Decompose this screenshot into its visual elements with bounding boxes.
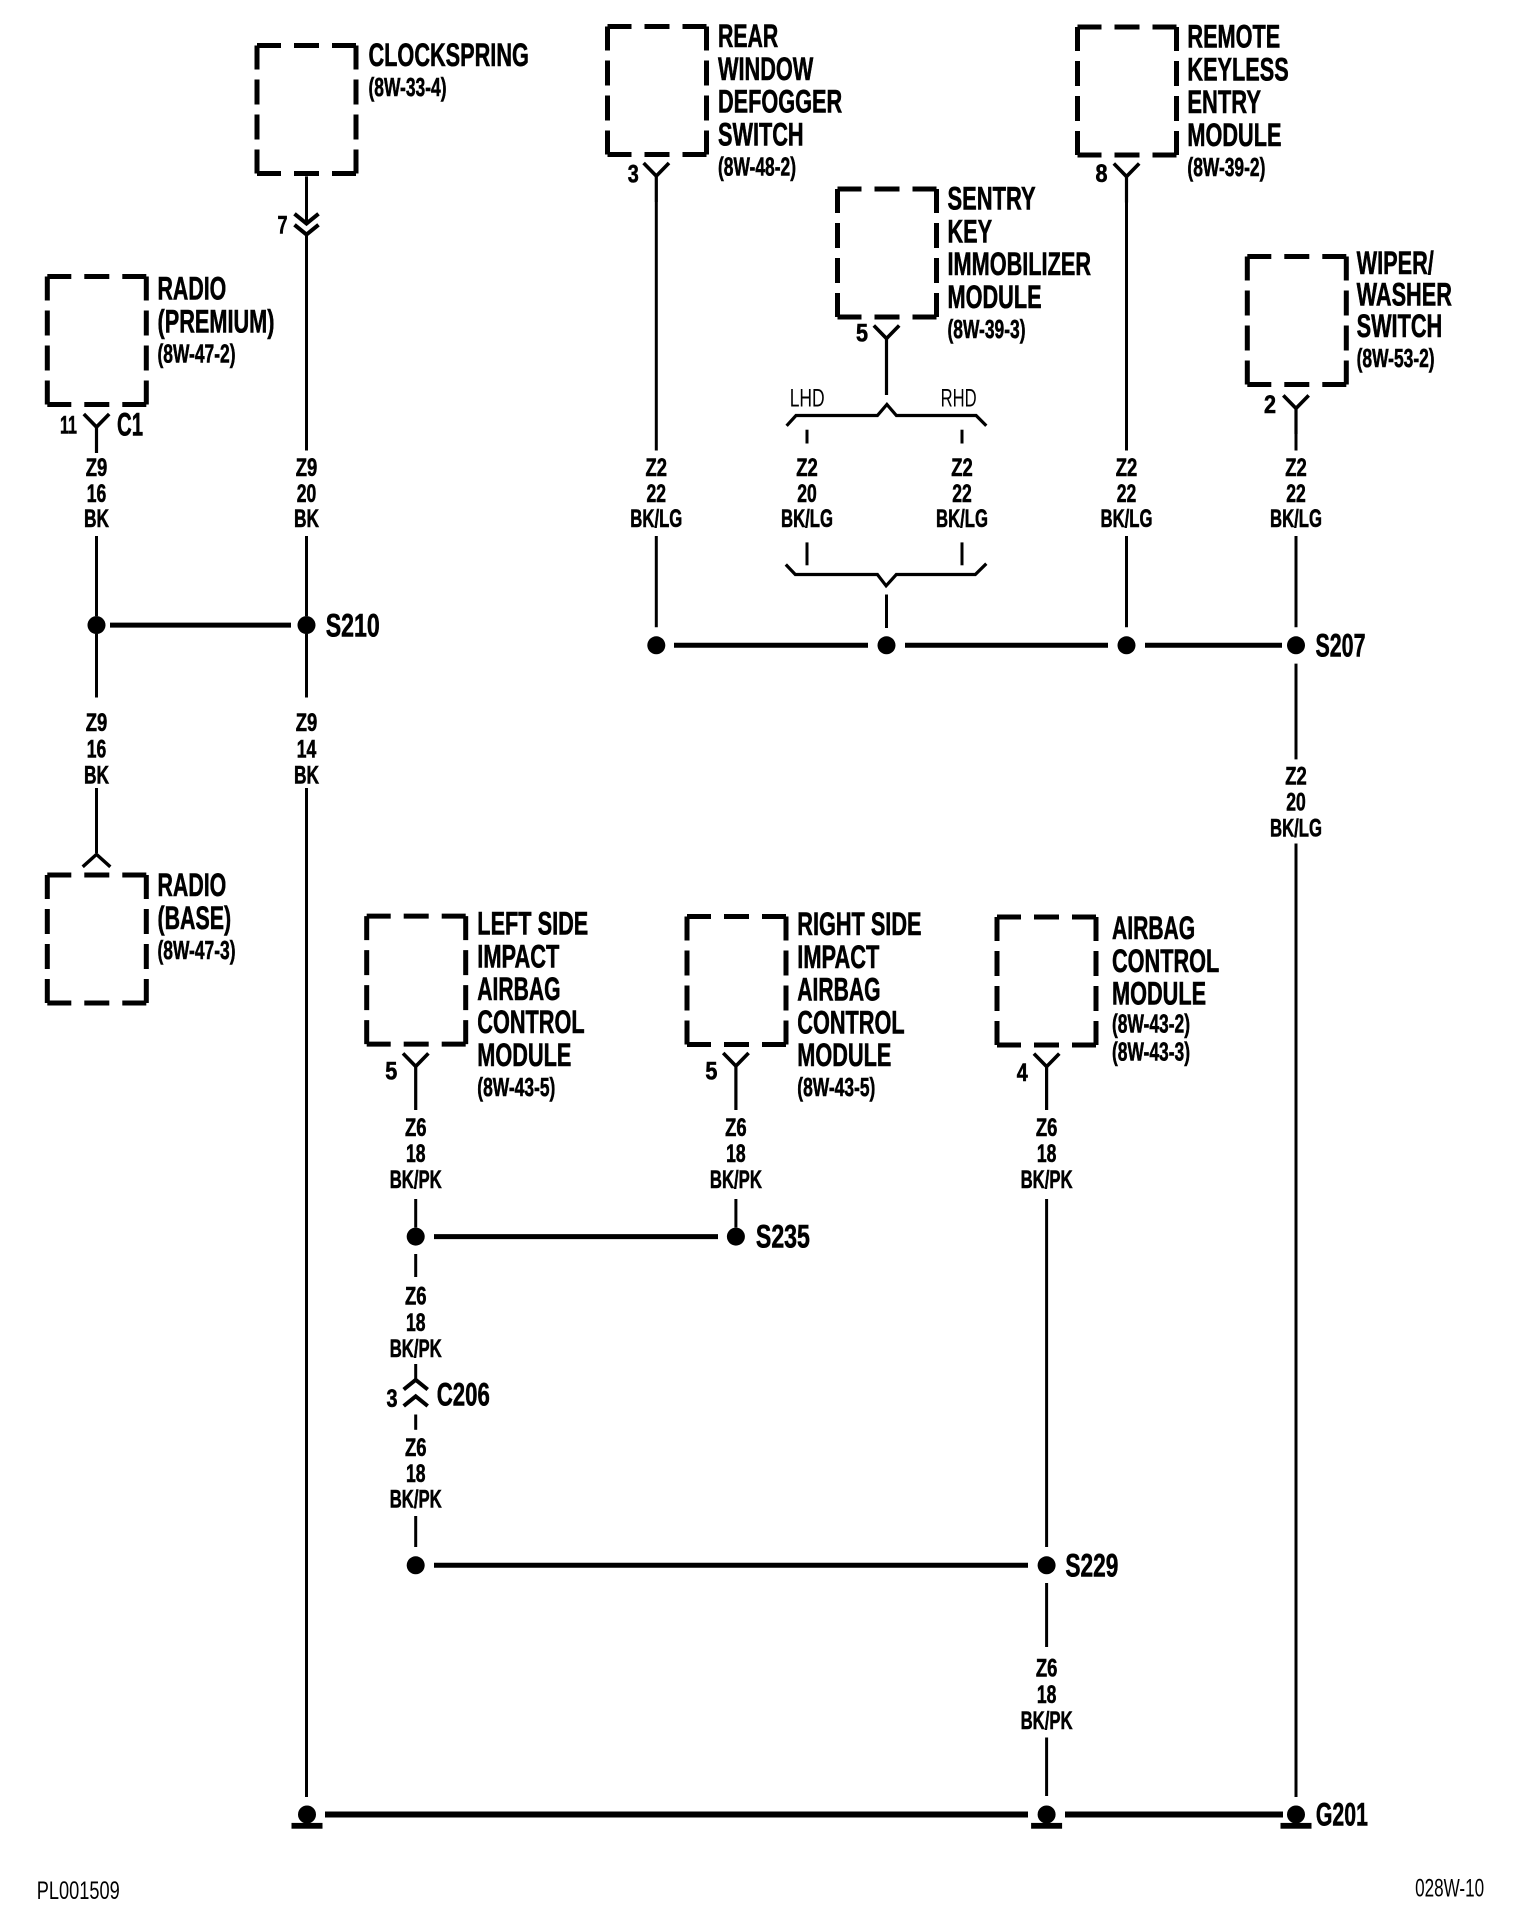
svg-text:G201: G201 <box>1316 1797 1368 1833</box>
svg-text:MODULE: MODULE <box>948 279 1042 315</box>
svg-text:028W-10: 028W-10 <box>1415 1875 1484 1903</box>
svg-text:Z2: Z2 <box>1285 762 1307 790</box>
svg-text:(PREMIUM): (PREMIUM) <box>158 303 275 339</box>
svg-text:18: 18 <box>406 1309 426 1337</box>
svg-text:18: 18 <box>1037 1140 1057 1168</box>
svg-text:22: 22 <box>647 480 667 508</box>
svg-text:3: 3 <box>628 161 639 189</box>
svg-text:BK/LG: BK/LG <box>1270 505 1322 533</box>
svg-text:BK/LG: BK/LG <box>630 505 682 533</box>
svg-text:Z6: Z6 <box>725 1114 747 1142</box>
svg-text:AIRBAG: AIRBAG <box>477 971 560 1007</box>
svg-text:8: 8 <box>1096 160 1108 188</box>
svg-text:PL001509: PL001509 <box>37 1877 120 1905</box>
svg-text:BK/PK: BK/PK <box>1021 1707 1073 1735</box>
svg-text:MODULE: MODULE <box>477 1037 571 1073</box>
svg-text:REAR: REAR <box>718 18 778 54</box>
svg-text:Z2: Z2 <box>646 454 668 482</box>
svg-text:KEYLESS: KEYLESS <box>1187 51 1288 87</box>
svg-text:CONTROL: CONTROL <box>797 1004 904 1040</box>
svg-text:RIGHT SIDE: RIGHT SIDE <box>797 906 921 942</box>
svg-text:(8W-43-5): (8W-43-5) <box>477 1072 555 1102</box>
svg-text:20: 20 <box>297 480 317 508</box>
svg-text:LEFT SIDE: LEFT SIDE <box>477 906 588 942</box>
svg-text:IMPACT: IMPACT <box>797 939 879 975</box>
svg-text:RADIO: RADIO <box>158 867 227 903</box>
svg-text:22: 22 <box>1286 480 1306 508</box>
svg-text:2: 2 <box>1264 391 1276 419</box>
svg-text:7: 7 <box>278 212 288 240</box>
svg-text:S229: S229 <box>1065 1547 1118 1583</box>
svg-text:(8W-47-3): (8W-47-3) <box>158 935 236 965</box>
svg-text:(8W-33-4): (8W-33-4) <box>369 72 447 102</box>
svg-text:(8W-39-2): (8W-39-2) <box>1187 152 1265 182</box>
svg-text:4: 4 <box>1017 1059 1028 1087</box>
svg-text:REMOTE: REMOTE <box>1187 19 1280 55</box>
svg-text:BK/PK: BK/PK <box>1021 1166 1073 1194</box>
svg-text:Z2: Z2 <box>796 454 818 482</box>
svg-text:18: 18 <box>1037 1681 1057 1709</box>
svg-text:CONTROL: CONTROL <box>1112 943 1219 979</box>
svg-text:(BASE): (BASE) <box>158 900 232 936</box>
svg-text:CONTROL: CONTROL <box>477 1004 584 1040</box>
svg-text:22: 22 <box>1117 480 1137 508</box>
svg-text:(8W-48-2): (8W-48-2) <box>718 151 796 181</box>
svg-text:(8W-39-3): (8W-39-3) <box>948 314 1026 344</box>
svg-text:5: 5 <box>856 320 868 348</box>
svg-text:22: 22 <box>952 480 972 508</box>
svg-text:(8W-43-5): (8W-43-5) <box>797 1072 875 1102</box>
svg-text:BK: BK <box>294 505 319 533</box>
svg-text:(8W-53-2): (8W-53-2) <box>1357 343 1435 373</box>
svg-text:BK/LG: BK/LG <box>936 505 988 533</box>
svg-text:5: 5 <box>385 1058 397 1086</box>
svg-text:Z2: Z2 <box>1285 454 1307 482</box>
svg-text:5: 5 <box>705 1058 717 1086</box>
svg-text:SENTRY: SENTRY <box>948 181 1036 217</box>
svg-text:14: 14 <box>297 735 317 763</box>
svg-text:Z2: Z2 <box>1116 454 1138 482</box>
svg-text:BK/LG: BK/LG <box>781 505 833 533</box>
svg-text:ENTRY: ENTRY <box>1187 84 1261 120</box>
svg-text:CLOCKSPRING: CLOCKSPRING <box>369 37 529 73</box>
svg-text:Z6: Z6 <box>405 1283 427 1311</box>
svg-text:Z6: Z6 <box>405 1434 427 1462</box>
svg-text:BK/PK: BK/PK <box>710 1166 762 1194</box>
svg-text:Z2: Z2 <box>951 454 973 482</box>
svg-text:BK: BK <box>84 505 109 533</box>
svg-text:Z6: Z6 <box>1036 1114 1058 1142</box>
svg-text:Z6: Z6 <box>1036 1655 1058 1683</box>
svg-text:S207: S207 <box>1316 628 1366 664</box>
svg-text:18: 18 <box>726 1140 746 1168</box>
svg-text:DEFOGGER: DEFOGGER <box>718 84 842 120</box>
svg-text:BK: BK <box>294 762 319 790</box>
svg-text:(8W-43-2): (8W-43-2) <box>1112 1009 1190 1039</box>
svg-text:C206: C206 <box>437 1377 490 1413</box>
svg-text:Z9: Z9 <box>86 454 108 482</box>
svg-text:MODULE: MODULE <box>1187 117 1281 153</box>
svg-text:AIRBAG: AIRBAG <box>797 972 880 1008</box>
svg-text:C1: C1 <box>117 407 143 443</box>
svg-text:MODULE: MODULE <box>797 1037 891 1073</box>
svg-text:BK/PK: BK/PK <box>390 1486 442 1514</box>
svg-text:BK/LG: BK/LG <box>1101 505 1153 533</box>
svg-text:BK/PK: BK/PK <box>390 1335 442 1363</box>
svg-text:BK/PK: BK/PK <box>390 1166 442 1194</box>
svg-text:RADIO: RADIO <box>158 271 227 307</box>
svg-text:AIRBAG: AIRBAG <box>1112 910 1195 946</box>
svg-text:Z9: Z9 <box>296 454 318 482</box>
svg-text:MODULE: MODULE <box>1112 976 1206 1012</box>
svg-text:Z9: Z9 <box>86 709 108 737</box>
svg-text:16: 16 <box>87 480 107 508</box>
svg-text:BK/LG: BK/LG <box>1270 814 1322 842</box>
svg-text:SWITCH: SWITCH <box>718 116 804 152</box>
svg-text:BK: BK <box>84 762 109 790</box>
svg-text:SWITCH: SWITCH <box>1357 308 1443 344</box>
svg-text:20: 20 <box>797 480 817 508</box>
svg-text:11: 11 <box>60 412 77 440</box>
svg-text:Z9: Z9 <box>296 709 318 737</box>
svg-text:(8W-47-2): (8W-47-2) <box>158 338 236 368</box>
svg-text:3: 3 <box>387 1385 398 1413</box>
svg-text:Z6: Z6 <box>405 1114 427 1142</box>
svg-text:S210: S210 <box>326 607 380 643</box>
svg-text:IMPACT: IMPACT <box>477 938 559 974</box>
svg-text:18: 18 <box>406 1140 426 1168</box>
svg-text:KEY: KEY <box>948 213 993 249</box>
svg-text:IMMOBILIZER: IMMOBILIZER <box>948 246 1092 282</box>
svg-text:(8W-43-3): (8W-43-3) <box>1112 1037 1190 1067</box>
svg-text:RHD: RHD <box>941 385 977 413</box>
svg-text:20: 20 <box>1286 789 1306 817</box>
svg-text:LHD: LHD <box>790 385 825 413</box>
svg-text:WINDOW: WINDOW <box>718 51 814 87</box>
svg-text:16: 16 <box>87 735 107 763</box>
svg-text:S235: S235 <box>756 1219 810 1255</box>
svg-text:18: 18 <box>406 1460 426 1488</box>
